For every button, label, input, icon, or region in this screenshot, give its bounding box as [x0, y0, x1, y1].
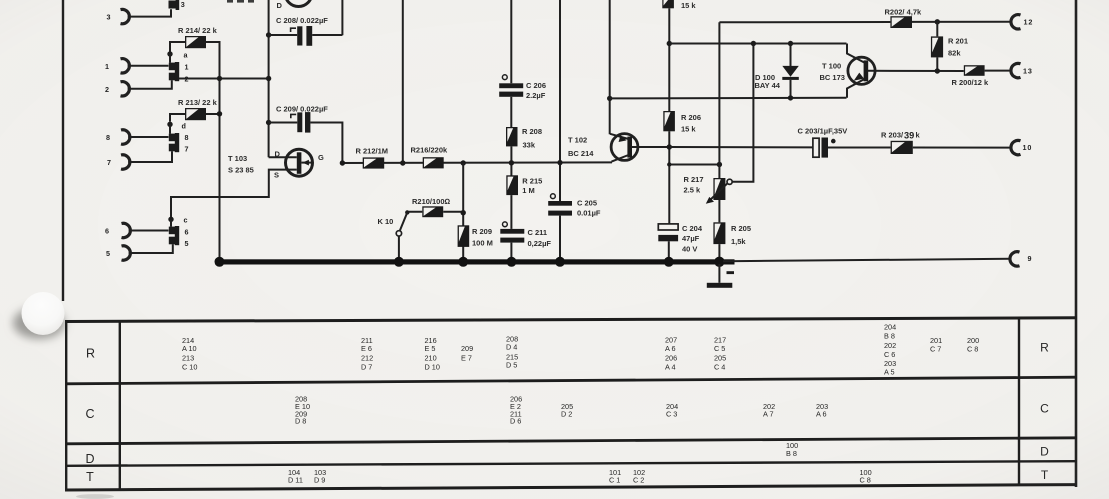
wire 15k resistor down to R206: [668, 8, 670, 111]
resistor R202: [890, 16, 912, 28]
capacitor C204: [658, 224, 678, 241]
wire jack6 to pin block: [129, 230, 169, 232]
resistor R210 leads: [409, 211, 463, 213]
resistor R206: [663, 111, 675, 131]
wire C211 to bus: [510, 243, 512, 260]
junction dot R216 right: [461, 160, 466, 165]
node c dot: [168, 217, 173, 222]
diode D100: [782, 44, 799, 98]
junction dot C209: [266, 120, 271, 125]
wire node d to pin block: [169, 124, 171, 133]
wire R214 junction down to ground bus: [219, 76, 221, 260]
resistor R210: [422, 206, 443, 217]
wire T102 collector up: [609, 0, 611, 134]
resistor R203: [891, 141, 913, 154]
signal line base node to C203: [669, 146, 813, 148]
wire R217 to R205: [718, 200, 720, 222]
resistor R215: [506, 175, 518, 195]
node d dot: [167, 122, 172, 127]
bus node dot C204: [664, 257, 674, 267]
T row refs col 101: [609, 468, 621, 485]
resistor R213: [185, 108, 206, 120]
connector 12: [1011, 15, 1021, 29]
wire pins1/2 to node: [179, 78, 269, 80]
wire C205 to bus: [559, 216, 561, 260]
R row refs col 204: [884, 323, 896, 377]
R row refs col 216: [425, 336, 440, 372]
vertical wire FET drains: [268, 0, 270, 157]
bus node dot C205: [555, 257, 565, 267]
pin block 6/5: [169, 226, 179, 245]
junction dot R212/R216: [400, 160, 405, 165]
bottom-left smudge: [76, 494, 114, 499]
jack socket 2: [121, 82, 130, 96]
resistor 15k (cut at top): [662, 0, 674, 8]
T row refs col 103: [314, 468, 326, 485]
jack socket 6: [122, 223, 131, 237]
capacitor C208: [291, 26, 313, 46]
junction dot R213: [217, 111, 222, 116]
wire jack7 to pin block: [128, 151, 172, 162]
capacitor C209 wires: [269, 123, 343, 164]
C row refs col 204: [666, 402, 678, 419]
bus node dot R209: [458, 257, 468, 267]
C row refs col 208: [295, 395, 310, 426]
bus node dot ground: [714, 257, 724, 267]
junction dot gate/C209: [340, 160, 345, 165]
table R/C divider: [65, 377, 1077, 384]
wire R206 to base node: [668, 131, 670, 224]
R row refs col 200: [967, 336, 979, 354]
punch hole: [13, 292, 65, 339]
junction dot R210/R209: [461, 210, 466, 215]
junction dot R201 top: [935, 19, 940, 24]
jack socket 8: [121, 130, 130, 144]
resistor R214: [185, 36, 206, 48]
transistor T103: [286, 149, 313, 176]
resistor R209: [458, 225, 470, 247]
junction dot R214/pins: [217, 76, 222, 81]
resistor R200: [964, 65, 985, 76]
ground bus: [215, 259, 735, 264]
T103 source lead to node c: [171, 170, 297, 217]
jack socket 1: [121, 59, 130, 73]
table left label divider: [119, 322, 121, 490]
junction dot supply line left end: [667, 41, 672, 46]
resistor R216: [423, 157, 444, 168]
table top border: [65, 318, 1077, 322]
wire T104 gate: [341, 0, 343, 35]
table bottom border: [65, 485, 1077, 490]
capacitor C205: [548, 194, 572, 216]
junction dot T102 collector line: [607, 96, 612, 101]
resistor R214 leads: [170, 42, 220, 76]
wire jack5 to pin block: [129, 244, 173, 253]
wire jack1 to pin block: [128, 65, 169, 67]
wire R203 to connector 10: [913, 147, 1011, 149]
T row refs col 102: [633, 468, 645, 485]
wire R208 to signal line: [510, 146, 512, 176]
capacitor C208 wires: [269, 34, 343, 36]
wire top to C206: [510, 0, 512, 83]
capacitor C206: [499, 75, 523, 97]
left frame border line: [62, 0, 64, 301]
junction dot R208/R215: [509, 160, 514, 165]
wire from top to R212/R216 junction: [402, 0, 404, 163]
C row refs col 205: [561, 402, 573, 419]
T row refs col 100: [860, 468, 872, 485]
resistor R212: [363, 157, 385, 168]
table C/D divider: [65, 438, 1077, 444]
wire R200 to connector 13: [985, 70, 1011, 72]
table right label divider: [1018, 318, 1020, 485]
transistor T102: [610, 134, 669, 162]
wire C204 to bus: [668, 241, 670, 260]
resistor R213 leads: [170, 114, 220, 122]
R row refs col 207: [665, 335, 677, 371]
pin 3 block: [169, 0, 180, 10]
connector 13: [1011, 63, 1021, 77]
T row refs col 104: [288, 468, 303, 485]
transistor T100: [847, 44, 964, 98]
junction dot wiper line top: [751, 41, 756, 46]
minus mark: [727, 271, 735, 274]
capacitor C203: [813, 138, 836, 158]
right frame border line: [1075, 0, 1078, 487]
wire C203 to R203: [828, 147, 891, 149]
wire jack3 to pin3: [128, 9, 171, 16]
jack socket 3: [121, 9, 130, 23]
ground symbol: [707, 264, 733, 288]
C row refs col 203: [816, 402, 828, 419]
wire jack8 to pin block: [128, 136, 168, 138]
resistor R201 leads: [936, 22, 938, 71]
transistor T104 (cut at top): [285, 0, 312, 7]
bus node dot left end: [215, 257, 225, 267]
resistor R203 label: [881, 130, 921, 140]
wire R217 wiper up to supply dot: [732, 44, 753, 182]
capacitor C209: [291, 112, 311, 133]
wire node c to pin block: [170, 219, 172, 226]
junction dot C205 top: [557, 160, 562, 165]
pin block 1/2: [169, 62, 179, 81]
junction dot branch: [667, 162, 671, 166]
T103 drain lead: [269, 156, 297, 158]
jack socket 7: [121, 155, 130, 169]
signal line gate node to T102: [342, 161, 612, 164]
wire jack2 to pin block: [128, 80, 172, 89]
connector 10: [1011, 140, 1021, 154]
wire bus to connector 9: [723, 259, 1011, 261]
R row refs col 208: [506, 334, 518, 369]
C row refs col 206: [510, 395, 522, 426]
junction dot T102 base node: [667, 144, 672, 149]
junction dot R217 top: [717, 162, 722, 167]
junction dot D100 bottom: [788, 95, 793, 100]
resistor R208: [506, 127, 518, 146]
resistor R201: [931, 36, 943, 57]
junction dot C208: [266, 32, 271, 37]
R row refs col 217: [714, 335, 726, 371]
jack socket 5: [122, 246, 131, 260]
wire supply corner to R202: [719, 21, 890, 23]
wire C206 to R208: [510, 97, 512, 127]
supply line to T100 collector: [669, 43, 846, 45]
D row refs col 100: [786, 441, 798, 458]
vertical wire R216 junction to bus: [462, 163, 464, 260]
branch wire to R217 top: [669, 164, 719, 166]
switch K10: [396, 210, 409, 260]
top edge text fragment (cut): [227, 0, 254, 3]
R row refs col 201: [930, 336, 942, 354]
junction dot D100 top: [788, 41, 793, 46]
R row refs col 214: [182, 336, 197, 372]
potentiometer R217: [706, 178, 732, 204]
wire supply corner to R217: [718, 22, 720, 178]
wire top to C205 junction: [559, 0, 561, 201]
wire R215 to C211: [510, 195, 512, 229]
table left edge: [65, 322, 67, 491]
emitter line T102 collector to T100 emitter: [610, 97, 847, 100]
bus node dot K10: [394, 257, 404, 267]
R row refs col 209: [461, 344, 473, 362]
wire R202 to connector 12: [912, 21, 1011, 23]
bus node dot C211: [507, 257, 517, 267]
C row refs col 202: [763, 402, 775, 419]
resistor R205: [713, 222, 725, 244]
node a dot: [167, 51, 172, 56]
wire node a to pin block: [169, 54, 171, 63]
R row refs col 211: [361, 336, 373, 372]
pin block 8/7: [169, 133, 179, 152]
junction dot pins1/2 wire: [266, 76, 271, 81]
connector 9: [1010, 252, 1020, 266]
capacitor C211: [500, 222, 524, 243]
junction dot R200 line: [935, 68, 940, 73]
table D/T divider: [65, 461, 1077, 466]
wire R205 to bus: [718, 244, 720, 260]
